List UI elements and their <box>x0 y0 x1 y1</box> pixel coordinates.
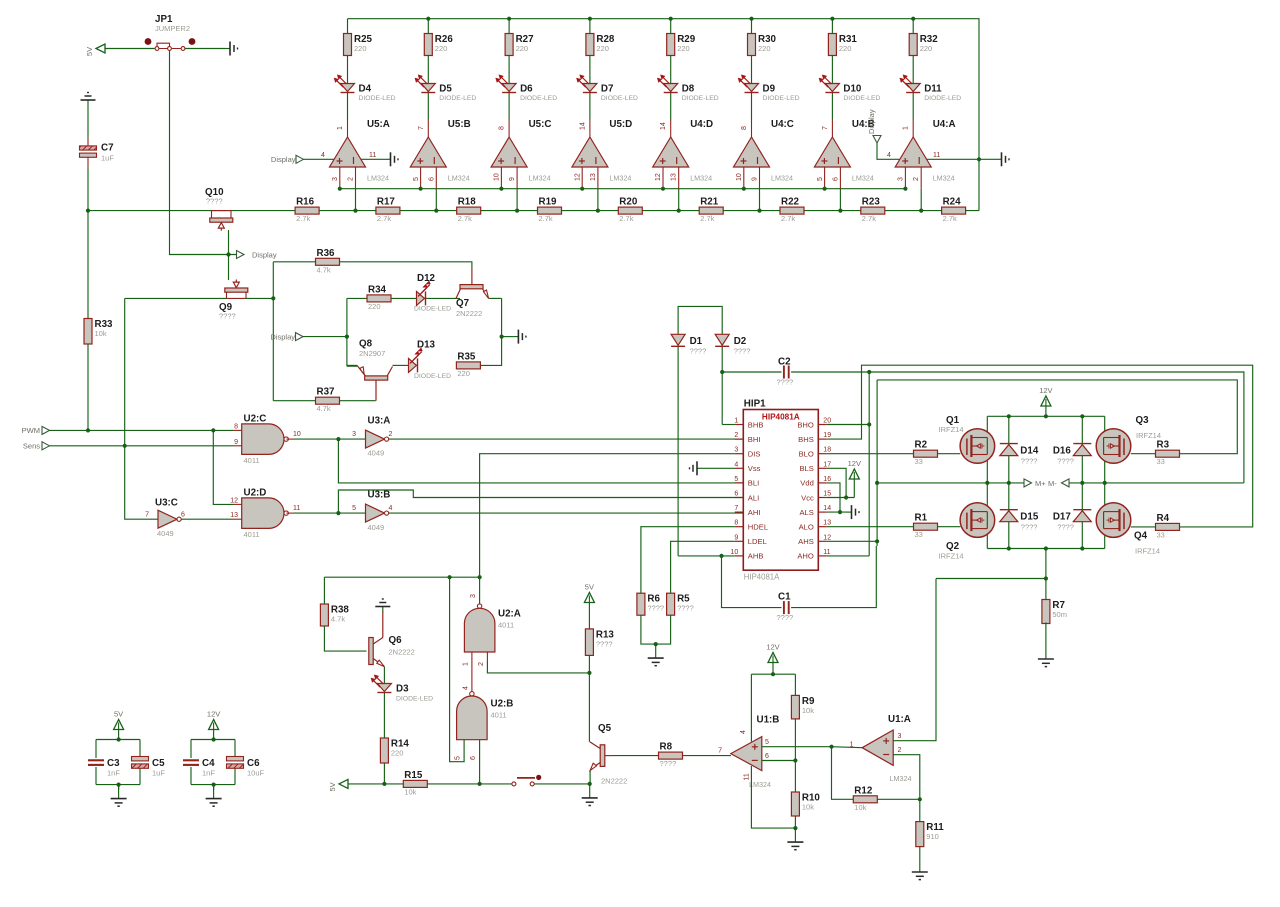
svg-text:14: 14 <box>660 122 667 130</box>
svg-text:5V: 5V <box>114 710 123 719</box>
svg-text:HDEL: HDEL <box>748 523 768 532</box>
svg-text:7: 7 <box>734 505 738 512</box>
svg-text:2.7k: 2.7k <box>862 214 876 223</box>
svg-text:????: ???? <box>1021 523 1038 532</box>
svg-text:C7: C7 <box>101 143 114 154</box>
svg-text:3: 3 <box>734 447 738 454</box>
svg-text:220: 220 <box>457 369 470 378</box>
svg-text:IRFZ14: IRFZ14 <box>1136 431 1161 440</box>
svg-text:5: 5 <box>413 177 420 181</box>
svg-text:12V: 12V <box>848 459 861 468</box>
svg-text:U1:B: U1:B <box>757 715 780 726</box>
svg-text:2: 2 <box>348 177 355 181</box>
svg-text:5: 5 <box>734 476 738 483</box>
svg-text:C6: C6 <box>247 758 260 769</box>
svg-text:4: 4 <box>740 730 747 734</box>
svg-text:R18: R18 <box>458 197 477 208</box>
svg-text:11: 11 <box>293 505 300 512</box>
svg-text:R16: R16 <box>296 197 315 208</box>
svg-text:2.7k: 2.7k <box>296 214 310 223</box>
svg-text:3: 3 <box>470 594 477 598</box>
svg-text:U5:A: U5:A <box>367 119 390 130</box>
svg-text:2: 2 <box>734 432 738 439</box>
svg-text:HIP4081A: HIP4081A <box>762 413 800 422</box>
svg-text:220: 220 <box>677 44 690 53</box>
svg-text:5: 5 <box>455 756 462 760</box>
svg-text:1uF: 1uF <box>101 154 114 163</box>
svg-text:6: 6 <box>470 756 477 760</box>
svg-text:Q3: Q3 <box>1136 415 1150 426</box>
svg-text:U2:C: U2:C <box>244 414 267 425</box>
svg-text:4011: 4011 <box>498 621 514 630</box>
svg-text:C2: C2 <box>778 357 791 368</box>
svg-text:14: 14 <box>579 122 586 130</box>
svg-text:Vcc: Vcc <box>801 493 814 502</box>
svg-text:U4:D: U4:D <box>690 119 713 130</box>
svg-text:????: ???? <box>777 613 794 622</box>
svg-text:6: 6 <box>832 177 839 181</box>
svg-text:C4: C4 <box>202 758 215 769</box>
svg-text:D1: D1 <box>690 336 703 347</box>
svg-text:DIODE-LED: DIODE-LED <box>843 95 880 102</box>
svg-text:4: 4 <box>462 686 469 690</box>
svg-text:33: 33 <box>915 457 923 466</box>
svg-text:4049: 4049 <box>368 523 385 532</box>
svg-text:HIP1: HIP1 <box>744 399 766 410</box>
svg-text:12: 12 <box>230 497 238 504</box>
svg-text:BHS: BHS <box>798 435 814 444</box>
svg-text:LM324: LM324 <box>890 774 912 783</box>
svg-text:R23: R23 <box>862 197 881 208</box>
svg-text:5: 5 <box>352 505 356 512</box>
svg-text:220: 220 <box>758 44 771 53</box>
svg-text:33: 33 <box>915 530 923 539</box>
svg-text:5: 5 <box>765 739 769 746</box>
svg-text:2N2222: 2N2222 <box>601 777 627 786</box>
svg-text:33: 33 <box>1157 457 1165 466</box>
svg-text:LM324: LM324 <box>448 174 470 183</box>
svg-text:R3: R3 <box>1157 440 1170 451</box>
svg-text:R2: R2 <box>915 440 928 451</box>
svg-text:D3: D3 <box>396 684 409 695</box>
svg-text:12V: 12V <box>207 710 220 719</box>
svg-text:Vss: Vss <box>748 464 761 473</box>
svg-text:9: 9 <box>734 534 738 541</box>
svg-text:10: 10 <box>494 173 501 181</box>
svg-text:2N2222: 2N2222 <box>456 309 482 318</box>
svg-text:Q7: Q7 <box>456 298 470 309</box>
svg-text:IRFZ14: IRFZ14 <box>939 425 964 434</box>
svg-text:910: 910 <box>926 832 939 841</box>
svg-text:6: 6 <box>428 177 435 181</box>
svg-text:R22: R22 <box>781 197 800 208</box>
svg-text:R37: R37 <box>317 387 336 398</box>
svg-text:D16: D16 <box>1053 446 1072 457</box>
svg-text:2N2907: 2N2907 <box>359 349 385 358</box>
svg-text:LM324: LM324 <box>690 174 712 183</box>
svg-text:1nF: 1nF <box>202 769 215 778</box>
svg-text:R12: R12 <box>854 785 873 796</box>
svg-text:Q5: Q5 <box>598 723 612 734</box>
svg-text:U2:A: U2:A <box>498 609 521 620</box>
svg-text:7: 7 <box>145 512 149 519</box>
svg-text:R24: R24 <box>943 197 962 208</box>
svg-text:4.7k: 4.7k <box>317 404 331 413</box>
svg-text:D15: D15 <box>1020 512 1039 523</box>
svg-text:5: 5 <box>817 177 824 181</box>
svg-text:11: 11 <box>933 152 940 159</box>
svg-text:D9: D9 <box>763 84 776 95</box>
svg-text:17: 17 <box>823 461 831 468</box>
svg-text:U5:D: U5:D <box>609 119 632 130</box>
svg-text:R15: R15 <box>404 770 423 781</box>
svg-text:220: 220 <box>839 44 852 53</box>
svg-text:10k: 10k <box>854 803 866 812</box>
svg-text:M-: M- <box>1048 479 1057 488</box>
svg-text:R34: R34 <box>368 284 387 295</box>
svg-text:AHO: AHO <box>797 552 814 561</box>
svg-text:5V: 5V <box>585 583 594 592</box>
svg-text:C3: C3 <box>107 758 120 769</box>
svg-text:220: 220 <box>354 44 367 53</box>
svg-text:U5:C: U5:C <box>529 119 552 130</box>
svg-text:11: 11 <box>744 773 751 780</box>
svg-text:BLO: BLO <box>799 450 814 459</box>
svg-text:3: 3 <box>352 431 356 438</box>
svg-text:Display: Display <box>271 155 296 164</box>
svg-text:50m: 50m <box>1052 610 1067 619</box>
svg-text:R36: R36 <box>317 248 336 259</box>
svg-text:220: 220 <box>920 44 933 53</box>
svg-text:4049: 4049 <box>157 529 174 538</box>
svg-text:U2:D: U2:D <box>244 488 267 499</box>
svg-text:20: 20 <box>823 418 831 425</box>
svg-text:10: 10 <box>731 549 739 556</box>
svg-text:D10: D10 <box>843 84 862 95</box>
svg-text:????: ???? <box>777 378 794 387</box>
svg-text:????: ???? <box>219 312 236 321</box>
svg-text:4.7k: 4.7k <box>331 615 345 624</box>
svg-text:8: 8 <box>234 423 238 430</box>
svg-text:12: 12 <box>823 534 831 541</box>
svg-text:7: 7 <box>418 126 425 130</box>
svg-text:R19: R19 <box>539 197 558 208</box>
svg-text:Q8: Q8 <box>359 339 373 350</box>
svg-text:6: 6 <box>734 491 738 498</box>
svg-text:4.7k: 4.7k <box>317 265 331 274</box>
svg-text:3: 3 <box>898 733 902 740</box>
svg-text:Q6: Q6 <box>389 635 403 646</box>
svg-text:????: ???? <box>677 604 694 613</box>
svg-text:BHB: BHB <box>748 420 764 429</box>
svg-text:33: 33 <box>1157 530 1165 539</box>
svg-text:U1:A: U1:A <box>888 714 911 725</box>
svg-text:LM324: LM324 <box>852 174 874 183</box>
svg-text:16: 16 <box>823 476 831 483</box>
svg-text:8: 8 <box>734 520 738 527</box>
svg-text:10uF: 10uF <box>247 769 265 778</box>
svg-text:HIP4081A: HIP4081A <box>744 573 780 582</box>
svg-text:1: 1 <box>903 126 910 130</box>
svg-text:U4:A: U4:A <box>933 119 956 130</box>
svg-text:2.7k: 2.7k <box>700 214 714 223</box>
svg-text:R8: R8 <box>660 742 673 753</box>
svg-text:IRFZ14: IRFZ14 <box>1135 547 1160 556</box>
svg-text:BLS: BLS <box>799 464 813 473</box>
svg-text:15: 15 <box>823 491 831 498</box>
svg-text:BHI: BHI <box>748 435 761 444</box>
svg-text:U3:C: U3:C <box>155 498 178 509</box>
svg-text:Sens: Sens <box>23 442 40 451</box>
svg-text:U3:A: U3:A <box>368 416 391 427</box>
svg-text:4011: 4011 <box>491 711 507 720</box>
svg-text:DIODE-LED: DIODE-LED <box>396 696 433 703</box>
svg-text:10k: 10k <box>95 329 107 338</box>
svg-text:????: ???? <box>660 759 677 768</box>
svg-text:D2: D2 <box>734 336 747 347</box>
svg-text:LM324: LM324 <box>771 174 793 183</box>
svg-text:Q4: Q4 <box>1134 531 1148 542</box>
svg-text:12V: 12V <box>766 643 779 652</box>
svg-text:DIODE-LED: DIODE-LED <box>601 95 638 102</box>
svg-text:11: 11 <box>823 549 830 556</box>
svg-text:9: 9 <box>509 177 516 181</box>
svg-text:R1: R1 <box>915 513 928 524</box>
svg-text:6: 6 <box>765 753 769 760</box>
svg-text:DIODE-LED: DIODE-LED <box>359 95 396 102</box>
svg-text:????: ???? <box>1057 457 1074 466</box>
svg-text:2.7k: 2.7k <box>539 214 553 223</box>
svg-text:DIS: DIS <box>748 450 761 459</box>
svg-text:R17: R17 <box>377 197 396 208</box>
svg-text:12: 12 <box>574 173 581 181</box>
svg-text:220: 220 <box>596 44 609 53</box>
svg-text:4: 4 <box>321 152 325 159</box>
svg-text:Display: Display <box>252 251 277 260</box>
svg-text:2.7k: 2.7k <box>781 214 795 223</box>
svg-text:AHI: AHI <box>748 508 761 517</box>
svg-text:????: ???? <box>647 604 664 613</box>
svg-text:2.7k: 2.7k <box>377 214 391 223</box>
svg-text:4: 4 <box>389 505 393 512</box>
svg-text:6: 6 <box>181 512 185 519</box>
svg-text:D5: D5 <box>439 84 452 95</box>
svg-text:3: 3 <box>332 177 339 181</box>
svg-text:LM324: LM324 <box>933 174 955 183</box>
svg-text:DIODE-LED: DIODE-LED <box>414 373 451 380</box>
svg-text:D6: D6 <box>520 84 533 95</box>
svg-text:DIODE-LED: DIODE-LED <box>763 95 800 102</box>
svg-text:12: 12 <box>655 173 662 181</box>
svg-text:JUMPER2: JUMPER2 <box>155 24 190 33</box>
svg-text:DIODE-LED: DIODE-LED <box>520 95 557 102</box>
svg-text:ALI: ALI <box>748 493 759 502</box>
svg-text:BHO: BHO <box>797 420 814 429</box>
svg-text:13: 13 <box>823 520 831 527</box>
svg-text:18: 18 <box>823 447 831 454</box>
svg-text:D7: D7 <box>601 84 614 95</box>
svg-text:U2:B: U2:B <box>491 699 514 710</box>
svg-text:Display: Display <box>867 109 876 134</box>
svg-text:2.7k: 2.7k <box>943 214 957 223</box>
svg-text:2: 2 <box>913 177 920 181</box>
svg-text:220: 220 <box>435 44 448 53</box>
svg-text:R21: R21 <box>700 197 719 208</box>
svg-text:5V: 5V <box>328 782 337 791</box>
svg-text:2: 2 <box>478 662 485 666</box>
svg-text:1nF: 1nF <box>107 769 120 778</box>
svg-text:4: 4 <box>734 461 738 468</box>
svg-text:1uF: 1uF <box>152 769 165 778</box>
svg-text:????: ???? <box>1021 457 1038 466</box>
svg-text:10: 10 <box>736 173 743 181</box>
svg-text:Display: Display <box>270 333 295 342</box>
svg-text:U5:B: U5:B <box>448 119 471 130</box>
svg-text:C5: C5 <box>152 758 165 769</box>
svg-text:Q2: Q2 <box>946 541 960 552</box>
svg-text:R4: R4 <box>1157 513 1170 524</box>
svg-text:C1: C1 <box>778 592 791 603</box>
svg-text:220: 220 <box>391 749 404 758</box>
svg-text:2: 2 <box>898 747 902 754</box>
svg-text:Vdd: Vdd <box>800 479 814 488</box>
svg-text:IRFZ14: IRFZ14 <box>939 552 964 561</box>
svg-text:8: 8 <box>499 126 506 130</box>
svg-text:220: 220 <box>516 44 529 53</box>
svg-text:9: 9 <box>752 177 759 181</box>
svg-text:PWM: PWM <box>22 426 40 435</box>
svg-text:DIODE-LED: DIODE-LED <box>682 95 719 102</box>
svg-text:1: 1 <box>337 126 344 130</box>
svg-text:ALO: ALO <box>799 523 814 532</box>
svg-text:DIODE-LED: DIODE-LED <box>414 306 451 313</box>
svg-text:2N2222: 2N2222 <box>389 648 415 657</box>
svg-text:13: 13 <box>590 173 597 181</box>
svg-text:4011: 4011 <box>244 530 260 539</box>
svg-text:LM324: LM324 <box>529 174 551 183</box>
svg-text:14: 14 <box>823 505 831 512</box>
svg-text:DIODE-LED: DIODE-LED <box>439 95 476 102</box>
svg-text:D13: D13 <box>417 340 436 351</box>
svg-text:R20: R20 <box>619 197 638 208</box>
svg-text:D11: D11 <box>924 84 942 95</box>
svg-text:1: 1 <box>462 662 469 666</box>
svg-text:AHS: AHS <box>798 537 814 546</box>
svg-text:4049: 4049 <box>368 449 385 458</box>
svg-text:DIODE-LED: DIODE-LED <box>924 95 961 102</box>
svg-text:4: 4 <box>887 152 891 159</box>
svg-text:U4:C: U4:C <box>771 119 794 130</box>
svg-text:2.7k: 2.7k <box>458 214 472 223</box>
svg-text:U3:B: U3:B <box>368 490 391 501</box>
svg-text:10k: 10k <box>802 803 814 812</box>
svg-text:LM324: LM324 <box>609 174 631 183</box>
svg-text:9: 9 <box>234 439 238 446</box>
svg-text:12V: 12V <box>1039 386 1052 395</box>
svg-text:ALS: ALS <box>799 508 813 517</box>
svg-text:AHB: AHB <box>748 552 764 561</box>
svg-text:1: 1 <box>734 418 738 425</box>
svg-text:5V: 5V <box>85 47 94 56</box>
svg-text:BLI: BLI <box>748 479 759 488</box>
svg-text:19: 19 <box>823 432 831 439</box>
svg-text:10: 10 <box>293 431 301 438</box>
svg-text:LDEL: LDEL <box>748 537 767 546</box>
svg-text:????: ???? <box>690 347 707 356</box>
svg-text:11: 11 <box>369 152 376 159</box>
svg-text:????: ???? <box>596 639 613 648</box>
svg-text:3: 3 <box>898 177 905 181</box>
svg-text:7: 7 <box>822 126 829 130</box>
svg-text:220: 220 <box>368 302 381 311</box>
svg-text:8: 8 <box>741 126 748 130</box>
svg-text:D14: D14 <box>1020 446 1039 457</box>
svg-text:4011: 4011 <box>244 456 260 465</box>
svg-text:D4: D4 <box>359 84 372 95</box>
svg-text:10k: 10k <box>802 706 814 715</box>
svg-text:D12: D12 <box>417 273 436 284</box>
svg-text:13: 13 <box>230 512 238 519</box>
svg-text:????: ???? <box>206 197 223 206</box>
svg-text:2: 2 <box>389 431 393 438</box>
svg-text:????: ???? <box>1057 523 1074 532</box>
svg-text:R35: R35 <box>457 351 476 362</box>
svg-text:LM324: LM324 <box>749 780 771 789</box>
svg-text:2.7k: 2.7k <box>619 214 633 223</box>
svg-text:D8: D8 <box>682 84 695 95</box>
svg-text:7: 7 <box>718 747 722 754</box>
svg-text:D17: D17 <box>1053 512 1072 523</box>
svg-text:????: ???? <box>734 347 751 356</box>
svg-text:13: 13 <box>671 173 678 181</box>
svg-text:M+: M+ <box>1035 479 1046 488</box>
svg-text:LM324: LM324 <box>367 174 389 183</box>
svg-text:10k: 10k <box>404 787 416 796</box>
